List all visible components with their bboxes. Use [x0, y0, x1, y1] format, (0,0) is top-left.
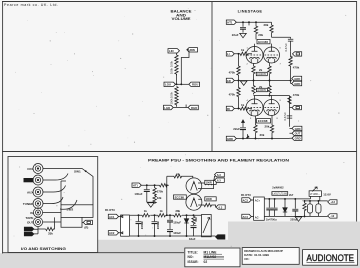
svg-text:1k: 1k	[144, 209, 148, 213]
ground filament	[295, 217, 302, 221]
svg-text:RI: RI	[227, 107, 230, 111]
svg-text:30k: 30k	[260, 133, 265, 137]
svg-text:VOLUME: VOLUME	[172, 17, 192, 21]
node rail end	[193, 214, 195, 216]
wire right bottom up	[186, 105, 188, 108]
resistor 470k output lower	[288, 96, 291, 104]
title text row2	[188, 255, 225, 259]
node rail 2k left	[253, 80, 255, 82]
svg-text:AC2: AC2	[109, 231, 115, 235]
node shunt1	[138, 214, 140, 216]
svg-text:M1 LINE: M1 LINE	[204, 250, 218, 254]
resistor 33k io	[46, 217, 55, 230]
cap 33uF shunt	[189, 226, 197, 241]
svg-text:6.3: 6.3	[217, 179, 221, 183]
volume resistor RV2a	[175, 87, 178, 96]
svg-text:0.47uF: 0.47uF	[283, 112, 287, 121]
svg-text:SW1: SW1	[74, 169, 81, 173]
svg-text:Pearce mark co. UK. Ltd.: Pearce mark co. UK. Ltd.	[4, 3, 58, 7]
node mid junction	[176, 83, 178, 85]
svg-text:22uF: 22uF	[233, 127, 240, 131]
capacitor 0.47uF lower	[283, 112, 292, 121]
regulator LT1086	[309, 187, 321, 201]
cathode resistor 2k right upper	[268, 63, 271, 80]
bridge box left	[119, 215, 130, 236]
svg-text:GRD: GRD	[294, 82, 300, 86]
svg-text:120uF: 120uF	[173, 221, 181, 225]
svg-text:ECC88: ECC88	[258, 40, 268, 44]
wire cap-res join	[147, 201, 155, 203]
node shunt2	[154, 214, 156, 216]
svg-text:2xIN4002: 2xIN4002	[272, 186, 284, 190]
capacitor 100uF psu	[134, 185, 149, 202]
svg-text:PREAMP PSU - SMOOTHING AND FIL: PREAMP PSU - SMOOTHING AND FILAMENT REGU…	[148, 158, 289, 163]
node rail out	[290, 80, 292, 82]
svg-text:270k: 270k	[157, 189, 164, 193]
wire out to R terminal	[82, 221, 83, 223]
bridge rectifier box	[251, 197, 264, 220]
resistor 1k heater feed	[167, 175, 193, 178]
svg-text:33k: 33k	[157, 196, 162, 200]
svg-text:100k: 100k	[170, 67, 174, 74]
svg-text:GRD: GRD	[294, 77, 300, 81]
terminal output lower	[292, 105, 301, 109]
svg-text:LI: LI	[227, 52, 230, 56]
svg-text:100uF: 100uF	[134, 192, 142, 196]
boxed label LM317	[272, 192, 288, 196]
resistor 38k c	[174, 214, 182, 217]
cathode resistor 20k lower-left	[254, 116, 257, 139]
diode shunt vertical	[184, 215, 188, 236]
capacitor 22uF lower	[233, 123, 246, 139]
ground symbol on rail	[240, 81, 247, 85]
terminal GRD upper	[226, 78, 234, 83]
cap 4700u b	[272, 199, 278, 217]
bottom return rail psu	[130, 235, 216, 237]
svg-text:LIN: LIN	[169, 49, 174, 53]
svg-text:CK:: CK:	[244, 257, 249, 261]
svg-text:I/O AND SWITCHING: I/O AND SWITCHING	[21, 247, 66, 251]
svg-text:1k: 1k	[160, 209, 164, 213]
node on HT rail	[242, 21, 244, 23]
cap cylinder 2	[316, 201, 321, 217]
svg-text:ECC88: ECC88	[175, 195, 185, 199]
terminal tag right A	[292, 126, 302, 131]
svg-text:33k: 33k	[194, 217, 198, 222]
svg-text:2x4700u: 2x4700u	[266, 217, 277, 221]
wire stubs right tags	[290, 128, 293, 138]
tube label ECC88 upper	[257, 39, 270, 44]
svg-text:100uF: 100uF	[156, 221, 160, 230]
cap 220u	[292, 199, 298, 217]
svg-text:0.47uF: 0.47uF	[284, 43, 288, 52]
shunt cap column1	[136, 215, 145, 236]
svg-text:33uF: 33uF	[189, 237, 196, 241]
net arrow up 22uF lower	[242, 120, 245, 123]
resistor 2k7	[303, 201, 306, 217]
title box	[185, 248, 240, 267]
svg-text:OUT: OUT	[27, 221, 34, 225]
svg-text:GRD: GRD	[25, 229, 30, 231]
switch SW2 box	[61, 205, 93, 218]
terminal HT out	[132, 183, 141, 188]
cap cylinder 1	[307, 201, 312, 217]
node cyl1	[309, 200, 311, 202]
svg-text:100uF: 100uF	[140, 221, 144, 230]
horizontal section divider	[2, 151, 357, 153]
svg-text:CD1: CD1	[27, 167, 33, 171]
boxed label 100R bottom	[205, 197, 216, 201]
svg-text:100k: 100k	[170, 91, 174, 98]
resistor 33k psu	[153, 196, 156, 204]
rca jack AUX	[33, 187, 43, 197]
anode rail wire upper	[255, 37, 291, 47]
volume resistor RV1a	[175, 55, 178, 65]
svg-text:-12: -12	[330, 214, 334, 218]
svg-text:38k: 38k	[175, 209, 180, 213]
node cyl2	[317, 200, 319, 202]
svg-text:GRD: GRD	[295, 127, 301, 131]
resistor series HT horizontal	[159, 184, 168, 187]
svg-text:100k: 100k	[170, 98, 174, 105]
triode V2a	[246, 99, 263, 116]
svg-text:TUNER: TUNER	[23, 202, 34, 206]
node return2	[154, 235, 156, 237]
scanner gray band bottom-left	[0, 253, 360, 268]
resistor 100R top	[202, 176, 216, 184]
volume resistor RV2b	[175, 96, 178, 107]
terminal ROU mid-right	[189, 82, 200, 86]
terminal HT	[226, 20, 236, 24]
svg-text:6.3: 6.3	[217, 173, 221, 177]
svg-text:OUT: OUT	[295, 132, 301, 136]
node return1	[138, 235, 140, 237]
terminal input upper	[226, 52, 234, 57]
svg-text:1N4005: 1N4005	[257, 73, 266, 76]
capacitor 0.47uF upper	[284, 37, 294, 52]
svg-text:RIN: RIN	[190, 48, 195, 52]
resistor 20k	[254, 22, 257, 39]
svg-text:ECC88: ECC88	[258, 119, 268, 123]
svg-text:470k: 470k	[229, 93, 236, 97]
terminal GRD io 2	[24, 232, 34, 236]
ground upper-left	[240, 33, 247, 37]
wire HT rail	[236, 21, 271, 23]
vertical section divider	[211, 2, 213, 152]
logo box	[303, 250, 358, 266]
rca jack TAPE OUT	[33, 217, 42, 226]
terminal GRD right1	[292, 76, 302, 81]
capacitor 22uF upper	[232, 22, 246, 37]
svg-text:22uF: 22uF	[232, 33, 239, 37]
node shunt3	[169, 214, 171, 216]
small resistor stub	[246, 134, 248, 138]
output line upper	[291, 52, 293, 57]
node mid right	[180, 83, 182, 85]
node input upper	[238, 53, 240, 55]
svg-text:6.3: 6.3	[219, 206, 223, 210]
terminal tag right B	[292, 131, 302, 136]
switch body outline	[61, 181, 66, 205]
resistor 100R bottom	[202, 203, 217, 207]
terminal GRD right2	[292, 81, 302, 86]
scanner gray band right	[228, 222, 360, 268]
ground rail upper	[234, 80, 290, 82]
boxed label 100R top	[205, 180, 216, 184]
label CD2 dark tag	[24, 178, 34, 182]
node rail lower res1	[255, 138, 257, 140]
triode V1b	[264, 47, 280, 63]
svg-text:470k: 470k	[293, 66, 300, 70]
wire from LIN to ladder top	[176, 53, 178, 55]
io box	[8, 157, 98, 253]
svg-text:470k: 470k	[229, 71, 236, 75]
cathode resistor 2k left upper	[252, 64, 255, 81]
node return3	[169, 235, 171, 237]
wire jack CD2 hook	[43, 174, 68, 181]
svg-text:LOU: LOU	[165, 83, 171, 87]
node jack out down	[37, 226, 39, 228]
svg-text:LT1086: LT1086	[310, 193, 319, 196]
svg-text:GRD: GRD	[218, 236, 224, 239]
cathode resistor 30k lower-right	[270, 116, 273, 139]
svg-text:LGD: LGD	[164, 106, 170, 110]
node 270k	[154, 184, 156, 186]
svg-text:20k: 20k	[258, 33, 263, 37]
wire heater pin2 top	[202, 180, 215, 188]
node input lower	[238, 108, 240, 110]
regulator out rail	[305, 200, 328, 202]
title text row3	[188, 260, 208, 264]
svg-text:ROU: ROU	[192, 83, 198, 87]
svg-text:NO:: NO:	[188, 255, 194, 259]
svg-text:1N4005: 1N4005	[257, 89, 266, 92]
node on HT rail	[248, 21, 250, 23]
rca jack TUNER	[33, 199, 43, 209]
resistor 1k a	[142, 214, 150, 217]
wire tape out	[43, 221, 61, 223]
terminal AC2 left	[108, 231, 118, 236]
resistor 1k grid upper	[234, 52, 252, 55]
filament bottom rail	[264, 215, 327, 217]
terminal input lower	[226, 106, 234, 111]
terminal LIN left top	[168, 49, 180, 53]
triode V1a	[246, 47, 263, 64]
svg-text:1k: 1k	[241, 48, 245, 52]
svg-text:(R): (R)	[84, 226, 88, 230]
rca jack TAPE IN	[33, 208, 42, 217]
svg-text:GD: GD	[227, 79, 231, 83]
svg-text:02: 02	[204, 260, 208, 264]
svg-text:12.6V: 12.6V	[323, 193, 331, 197]
svg-text:HT1: HT1	[133, 184, 139, 188]
anode rail lower	[254, 96, 290, 100]
terminal output upper	[293, 52, 302, 56]
svg-text:TITLE:: TITLE:	[188, 250, 198, 254]
resistor 1k grid lower	[234, 107, 252, 110]
svg-text:470k: 470k	[293, 93, 300, 97]
svg-text:120uF: 120uF	[173, 231, 181, 235]
boxed label upper	[256, 72, 267, 76]
svg-text:RGD: RGD	[191, 106, 197, 110]
switch wiper node	[85, 170, 87, 172]
wire tape in	[43, 212, 61, 214]
resistor 470k lower-left	[237, 81, 240, 109]
component box with arrow	[202, 215, 212, 237]
wire mid to right terminal	[177, 83, 189, 85]
wire jack CD to switch	[43, 169, 93, 205]
ground rail lower	[236, 138, 289, 140]
node return4	[186, 235, 188, 237]
page border left	[2, 1, 4, 254]
svg-text:28k: 28k	[264, 23, 269, 27]
svg-text:LM317/LT1086: LM317/LT1086	[273, 193, 288, 196]
smoothing rail	[130, 214, 202, 216]
svg-text:33k: 33k	[48, 232, 53, 236]
svg-text:100R: 100R	[206, 197, 212, 201]
node rail 2k right	[269, 80, 271, 82]
node cap b	[274, 198, 276, 200]
audionote logo	[307, 253, 355, 264]
svg-text:100k: 100k	[170, 60, 174, 67]
svg-text:ISSUE:: ISSUE:	[188, 260, 199, 264]
page border right	[356, 1, 358, 222]
wire from RIN down	[181, 50, 189, 85]
terminal GRD lower	[226, 136, 236, 141]
wire output lower stub	[290, 107, 293, 109]
wire jack TUNER hook	[43, 197, 63, 204]
node rail lower res2	[271, 138, 273, 140]
diode filament	[283, 199, 287, 217]
svg-text:1k: 1k	[241, 103, 245, 107]
svg-text:20k: 20k	[265, 124, 270, 128]
switch wiper arc	[60, 200, 77, 209]
terminal tag right C	[292, 136, 302, 141]
output line lower	[289, 96, 291, 127]
svg-text:AC3: AC3	[243, 198, 249, 202]
svg-text:GRD: GRD	[227, 137, 233, 141]
title text row1	[188, 250, 223, 254]
wire GRD right stub	[291, 81, 292, 84]
wire jack AUX hook	[43, 186, 66, 193]
node 2k7 top	[304, 200, 306, 202]
node anode rail	[269, 95, 271, 97]
wire HT out rail	[141, 184, 159, 186]
node on HT rail	[255, 21, 257, 23]
terminal heater A	[215, 173, 225, 178]
bottom row wire	[174, 107, 187, 109]
triode V2b	[264, 100, 280, 116]
svg-text:TAPE: TAPE	[25, 216, 33, 220]
terminal AC3	[242, 198, 252, 203]
node cap 220u	[294, 198, 296, 200]
svg-text:AC1: AC1	[109, 215, 115, 219]
svg-text:2k7: 2k7	[289, 193, 294, 197]
terminal LOU mid-left	[164, 82, 176, 86]
svg-text:R1 RT3: R1 RT3	[241, 193, 251, 197]
terminal GRD io 1	[24, 227, 34, 231]
node 2k7 bottom	[304, 215, 306, 217]
anode resistor 2k left lower	[252, 81, 255, 95]
svg-text:LINESTAGE: LINESTAGE	[238, 9, 263, 14]
wire ladder mid	[176, 74, 178, 84]
label ECC88 heater	[174, 195, 187, 199]
resistor 28k	[270, 22, 273, 37]
switch SW2 lower box	[61, 217, 82, 227]
terminal AC4	[242, 214, 252, 219]
wire GRD tags	[34, 227, 46, 234]
node diode shunt	[186, 214, 188, 216]
wire stub node	[248, 22, 250, 25]
terminal 12.6V minus	[328, 214, 337, 219]
terminal heater B	[215, 178, 225, 183]
svg-text:2k: 2k	[259, 68, 263, 72]
svg-text:HT1: HT1	[227, 20, 233, 24]
rca jack CD	[33, 164, 43, 174]
svg-text:1k: 1k	[176, 172, 180, 176]
volume resistor RV1b	[175, 65, 178, 75]
node rail lower 22uF	[242, 138, 244, 140]
filament top rail	[264, 198, 310, 200]
node rail 470k	[238, 80, 240, 82]
rca jack CD2	[33, 175, 43, 185]
node cap a	[268, 198, 270, 200]
svg-text:+12: +12	[330, 200, 335, 204]
svg-text:GRD: GRD	[25, 234, 30, 236]
terminal LGD bottom-left	[164, 105, 174, 110]
scanner gray band mid	[98, 240, 228, 256]
heater envelope V1	[186, 178, 202, 194]
svg-text:R1 RT3: R1 RT3	[105, 208, 115, 212]
terminal RGD bottom-right	[188, 105, 198, 110]
anode resistor 2k right lower	[268, 81, 271, 95]
node 100uF	[146, 184, 148, 186]
resistor 470k upper	[237, 54, 240, 81]
svg-text:GRD: GRD	[295, 137, 301, 141]
svg-text:AC-: AC-	[255, 215, 260, 219]
svg-text:100R: 100R	[206, 181, 212, 185]
shunt caps column3 series	[167, 215, 181, 236]
terminal ROU right top	[187, 48, 198, 52]
resistor 270k psu	[153, 185, 156, 195]
node riser bottom	[166, 214, 168, 216]
shunt cap column2	[152, 215, 161, 236]
resistor 470k output upper	[289, 57, 292, 80]
resistor 1k b	[158, 214, 166, 217]
svg-text:AUX: AUX	[27, 191, 34, 195]
terminal 12.6V plus	[328, 200, 337, 205]
boxed label lower	[256, 88, 267, 92]
page border top	[2, 1, 357, 3]
node diode filament	[284, 198, 286, 200]
tube label ECC88 lower	[257, 119, 271, 124]
ground psu left	[148, 203, 155, 207]
terminal GRD psu	[216, 235, 225, 240]
terminal AC1 left	[108, 214, 118, 219]
heater envelope V2	[186, 194, 202, 210]
svg-text:AC+: AC+	[255, 198, 261, 202]
terminal R	[83, 220, 92, 224]
drawn box	[242, 248, 299, 265]
resistor 33k shunt	[192, 215, 198, 225]
page border bottom	[2, 252, 184, 254]
HT riser wire	[166, 176, 168, 215]
terminal heater C	[216, 205, 225, 210]
cap 4700u a	[266, 199, 272, 217]
node riser top rail	[166, 184, 168, 186]
svg-text:AC4: AC4	[243, 215, 249, 219]
svg-text:SW2: SW2	[67, 208, 74, 212]
